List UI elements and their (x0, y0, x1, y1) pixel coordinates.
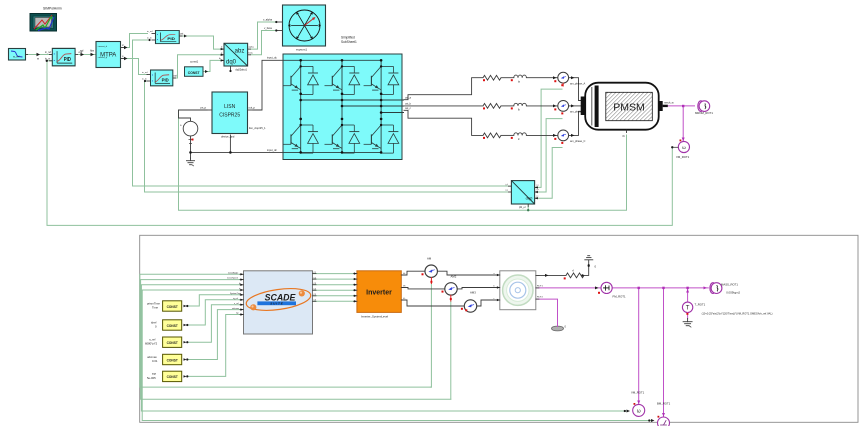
wire i_d feedback to PID2 in_m (133, 40, 512, 186)
svg-text:MROM_ROT1: MROM_ROT1 (695, 111, 713, 115)
node arrow wd (81, 53, 85, 56)
ammeter am_phase_B (558, 101, 569, 112)
svg-text:wd: wd (80, 49, 84, 53)
svg-text:AM2: AM2 (451, 275, 457, 279)
wire SCADE to Inverter gate signals (313, 273, 355, 275)
dc voltage source V1 (180, 121, 198, 143)
wire MTPA d out to PID2 in_ref (121, 34, 148, 48)
ammeter AM2 (445, 275, 457, 296)
wire machine ROT1 to FM_ROT1 (536, 287, 601, 289)
machine system-level block (494, 271, 544, 310)
wire CONST1 to SCADE SystemTime (187, 295, 240, 306)
svg-text:out_p: out_p (249, 106, 256, 110)
svg-text:out_a: out_a (405, 97, 412, 100)
wire ammeter A to PMSM (569, 78, 581, 101)
svg-text:5e-005: 5e-005 (147, 376, 156, 380)
svg-text:VM_ROT1: VM_ROT1 (631, 391, 645, 395)
svg-text:phi_el: phi_el (519, 206, 526, 209)
CONST block 1 prismTime (147, 301, 188, 311)
PID controller 3 (iq) (142, 70, 177, 86)
CONST block 3 n_ref (145, 337, 188, 347)
svg-text:CONST: CONST (167, 305, 178, 309)
rotational speed meter VM_ROT1 bottom (631, 391, 645, 417)
svg-text:CISPR25: CISPR25 (219, 113, 240, 119)
PMSM motor (581, 83, 674, 138)
node dq-meas bottom junction dot (527, 209, 529, 211)
wire branch down to AM_ROT1 bottom (663, 288, 665, 417)
wire AM2 to machine b (457, 288, 499, 289)
wire dq-meas bottom port junction (527, 205, 529, 211)
svg-text:CONST: CONST (167, 341, 178, 345)
wire ammeter C to PMSM (569, 111, 581, 135)
damping resistor rf (566, 273, 584, 278)
scope icon SIMPolAnim (30, 7, 62, 32)
rotational ground for ROT2 (552, 325, 567, 331)
resistor rc (483, 133, 501, 138)
svg-text:0.003kgm2: 0.003kgm2 (726, 291, 740, 295)
inverter bridge block (267, 54, 412, 160)
PID controller 1 (speed) (45, 48, 82, 65)
wire abz alpha out to svpwm v_alpha (251, 22, 276, 49)
svg-text:current_d: current_d (98, 45, 108, 48)
svg-text:MASS_ROT1: MASS_ROT1 (721, 283, 738, 287)
wire PID2 out to abz d input (180, 36, 221, 49)
svg-text:SystemTime: SystemTime (230, 292, 242, 295)
wire CONST2 to SCADE iq_ref (187, 300, 240, 325)
wire CONST5 to SCADE tsp (187, 315, 240, 377)
svg-text:svpwm1: svpwm1 (296, 48, 307, 52)
wire PID1 out to MTPA (78, 54, 96, 56)
transistor Q1 leg A upper (283, 65, 318, 94)
right port stubs (313, 274, 317, 302)
inductor lc (514, 133, 527, 136)
wire inverter out b to AM2 (402, 288, 445, 289)
SCADE controller block (227, 271, 317, 334)
svg-text:am_phase_C: am_phase_C (570, 139, 586, 143)
svg-text:v_beta: v_beta (264, 26, 272, 30)
svpwm1 block (263, 5, 326, 52)
source block w_ref (9, 49, 29, 61)
ammeter am_phase_C (558, 130, 569, 141)
wire abz beta out to svpwm v_beta (251, 31, 276, 55)
svg-text:out_b: out_b (405, 103, 412, 106)
wire LISN device_gnd down (229, 135, 231, 152)
wire AM to machine a (438, 271, 500, 275)
node arrows on phase wires before PMSM (553, 76, 575, 137)
CONST block 4 udcmax (147, 354, 188, 364)
wire LISN ps_p to dc source (179, 110, 208, 121)
wire feedback motorAngle from bottom (140, 274, 432, 387)
wire phase C from inverter out_c (404, 110, 483, 135)
ground above rf (inverted) (581, 256, 596, 277)
resistor rb (483, 104, 501, 109)
svg-text:i_q: i_q (504, 190, 507, 192)
MTPA block (96, 42, 128, 68)
PID controller 2 (id) (147, 30, 187, 44)
wire i_q feedback to PID3 in_m (145, 81, 512, 192)
svg-text:in_ref: in_ref (147, 30, 153, 33)
wire FM_ROT1 to MASS_ROT1 (612, 287, 708, 289)
rotational speed meter VM_ROT1 top (671, 140, 690, 160)
svg-text:VM_ROT1: VM_ROT1 (676, 155, 690, 159)
ammeter AM (425, 257, 437, 278)
svg-text:i_c: i_c (535, 195, 538, 197)
wire dc source minus to gnd rail (190, 136, 192, 158)
wire CONST4 to SCADE udcmax (187, 310, 240, 360)
resistor ra (483, 75, 501, 80)
wire inverter out a to AM (402, 271, 425, 275)
svg-text:abz: abz (235, 48, 245, 54)
svg-text:const1: const1 (190, 60, 199, 64)
wire MTPA q out to PID3 in_ref (121, 59, 148, 75)
wire angle feedback PMSM to phi_el line (179, 110, 627, 210)
svg-text:dq0: dq0 (526, 196, 533, 201)
wire LISN out_p to inverter dc+ rail (253, 60, 283, 110)
wire phase B segments (501, 105, 514, 107)
svg-text:CONST: CONST (188, 71, 201, 75)
svg-text:iq_ref: iq_ref (233, 298, 238, 300)
wire dc- rail to inverter (191, 151, 284, 153)
svg-text:ω: ω (682, 145, 686, 150)
red probe dots top sheet (192, 79, 564, 144)
svg-text:am_phase_A: am_phase_A (570, 82, 586, 86)
svg-text:input_dc: input_dc (267, 56, 278, 60)
svg-text:BM_ROT1: BM_ROT1 (657, 402, 671, 406)
wire AM3 to machine c (477, 300, 500, 306)
wire branch down to T_ROT1 (687, 288, 689, 302)
svg-text:in_m: in_m (45, 57, 50, 60)
svg-text:motorSpeed: motorSpeed (227, 277, 238, 280)
ammeter AM3 (464, 291, 476, 313)
svg-text:mech_w: mech_w (664, 101, 674, 105)
wire PID3 out to abz q input (173, 55, 221, 78)
svg-text:ROT1: ROT1 (537, 286, 544, 288)
svg-text:device_gnd: device_gnd (221, 135, 235, 139)
svg-text:Inverter_SystemLevel: Inverter_SystemLevel (361, 315, 388, 319)
frame subsystem border (140, 235, 858, 422)
transistor Q6 leg C lower (364, 124, 399, 153)
svg-text:+: + (180, 124, 182, 128)
node arrow into AM_ROT1 bottom (651, 419, 655, 422)
Inverter block (orange) (354, 271, 407, 319)
svg-text:(10+0.25*sin(2*pi*120/T/ms))*(: (10+0.25*sin(2*pi*120/T/ms))*(VM_ROT1.OM… (702, 311, 773, 315)
svg-text:Vc: Vc (403, 298, 405, 300)
node arrow into VM_ROT1 bottom (627, 410, 631, 413)
svg-text:T: T (686, 306, 690, 312)
svg-text:w_ref: w_ref (13, 55, 20, 59)
svg-text:lisn_cispr25_1: lisn_cispr25_1 (249, 126, 266, 130)
svg-text:fdw: fdw (90, 49, 94, 53)
inductor la (514, 75, 527, 78)
wire const1 to dq0 th port (203, 60, 221, 71)
svg-text:in_ref: in_ref (142, 71, 148, 74)
svg-text:rf: rf (572, 269, 574, 273)
rotational inertia MROM_ROT1 (695, 101, 713, 115)
wire phase B from inverter out_b (404, 105, 483, 107)
svg-text:T_ROT1: T_ROT1 (695, 303, 706, 307)
svg-text:motorAngle: motorAngle (228, 271, 239, 274)
wire phase C segments (501, 134, 514, 136)
rotational angle meter AM_ROT1 bottom (657, 402, 671, 426)
wire ammeter B to PMSM (569, 105, 581, 107)
svg-text:i_d: i_d (504, 184, 507, 186)
wire machine top to damping resistor rf (536, 274, 566, 276)
wire ammeter C measurement to dq-meas i_c (535, 148, 562, 199)
svg-text:CONST: CONST (167, 375, 178, 379)
node arrow fdw (91, 53, 95, 56)
svg-text:ROT2: ROT2 (537, 297, 544, 299)
svg-text:SubSheet1: SubSheet1 (341, 40, 357, 44)
node arrow w on wire (37, 53, 41, 56)
CONST block const1 (185, 60, 209, 77)
wire ammeter A measurement to dq-meas i_a (535, 89, 562, 187)
svg-text:ic: ic (239, 288, 240, 290)
svg-text:in_ref: in_ref (45, 51, 51, 54)
svg-text:ω: ω (637, 409, 641, 415)
svg-text:CONST: CONST (167, 358, 178, 362)
svg-text:0.01: 0.01 (152, 359, 158, 363)
svg-text:Inverter: Inverter (366, 290, 392, 297)
torque/force meter FM_ROT1 (601, 282, 626, 298)
svg-text:out: out (180, 33, 184, 36)
svg-text:out: out (174, 75, 178, 78)
svg-text:FM_ROT1: FM_ROT1 (613, 295, 626, 299)
CONST block 5 tsp (147, 371, 188, 381)
svg-text:n_ref: n_ref (234, 303, 239, 305)
svg-text:S U I T E: S U I T E (270, 302, 283, 306)
red probe dots bottom sheet (431, 83, 563, 301)
ammeter am_phase_A (558, 72, 569, 83)
wire feedback ic from bottom (142, 290, 650, 421)
magenta rotational wires (536, 286, 708, 416)
svg-text:AM: AM (427, 257, 432, 261)
transistor Q4 leg B lower (325, 124, 360, 153)
svg-text:c: c (494, 298, 495, 300)
LISN CISPR25 block (201, 92, 267, 139)
svg-text:out_c: out_c (405, 107, 412, 110)
svg-text:6080*pi*2: 6080*pi*2 (145, 342, 158, 346)
wire CONST3 to SCADE n_ref (187, 305, 240, 343)
svg-text:dq0: dq0 (226, 60, 237, 66)
wire feedback motorSpeed from bottom (141, 280, 451, 400)
svg-text:AM3: AM3 (470, 291, 476, 295)
svg-text:current_q: current_q (98, 56, 108, 59)
torque source T_ROT1 (682, 302, 772, 327)
wire ammeter AM ia drop (430, 284, 431, 388)
transistor Q3 leg B upper (325, 65, 360, 94)
svg-text:LISN: LISN (224, 104, 236, 110)
wire speed feedback VM_ROT1 to PID1 in_m (47, 61, 672, 226)
svg-text:CONST: CONST (167, 324, 178, 328)
svg-text:SIMPolAnim: SIMPolAnim (43, 7, 62, 11)
wire inverter out c to AM3 (402, 300, 465, 306)
transistor Q5 leg C upper (364, 65, 399, 94)
svg-text:udcmax: udcmax (232, 308, 239, 310)
wire phase A from inverter out_a (404, 78, 483, 100)
abc to dq measurement transform block phi_el (504, 181, 539, 209)
wire branch down to VM_ROT1 bottom (638, 288, 640, 404)
wire phase A res-ind-amm segments (501, 77, 514, 79)
svg-text:ps_p: ps_p (201, 107, 207, 110)
svg-text:in_m: in_m (147, 38, 152, 40)
svg-text:alpha: alpha (249, 47, 255, 49)
wire feedback ib from bottom (141, 285, 625, 411)
wire ammeter B measurement to dq-meas i_b (535, 119, 562, 192)
svg-text:in_m: in_m (142, 79, 147, 81)
svg-text:Time: Time (152, 306, 159, 310)
ground main dc (186, 158, 195, 167)
svg-text:input_dc: input_dc (267, 148, 278, 152)
left port stubs (240, 274, 244, 314)
svg-text:PMSM: PMSM (613, 102, 645, 114)
dq0 to abz transform block dq02abu1 (219, 43, 255, 72)
transistor Q2 leg A lower (283, 124, 318, 153)
wire machine ROT2 to rotational ground (536, 299, 558, 324)
wire source to PID1 (27, 54, 53, 56)
node dc rail junction dots (189, 151, 192, 154)
inductor lb (514, 103, 527, 106)
rotational inertia MASS_ROT1 (710, 283, 741, 295)
wire mech_w magenta from PMSM to inertia (663, 105, 695, 141)
wire magenta branch down to VM_ROT1 (682, 106, 684, 141)
CONST block 2 idref (151, 320, 188, 330)
svg-text:v_alpha: v_alpha (263, 18, 273, 22)
svg-text:dq02abu1: dq02abu1 (235, 68, 247, 72)
wire ammeter AM2 ib drop (450, 301, 452, 399)
